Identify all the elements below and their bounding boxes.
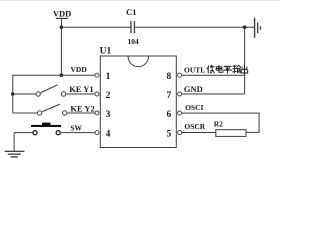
wire VDD vertical xyxy=(60,19,62,76)
switch KEY1 xyxy=(13,84,95,96)
svg-text:R2: R2 xyxy=(214,119,223,128)
resistor R2 xyxy=(214,119,246,136)
svg-text:VDD: VDD xyxy=(53,9,71,19)
svg-text:1: 1 xyxy=(106,72,111,82)
svg-text:SW: SW xyxy=(70,124,82,133)
ground (sideways, top right) xyxy=(254,18,261,38)
svg-text:OUTL: OUTL xyxy=(184,66,205,75)
top scan artifact line xyxy=(0,0,280,1)
svg-text:5: 5 xyxy=(167,129,172,139)
pin 1 xyxy=(95,72,111,82)
输 xyxy=(233,65,241,73)
wire pin7 GND xyxy=(181,93,244,95)
wire pin6 OSCI loop xyxy=(181,113,259,132)
node label chinese 低电平输出 xyxy=(207,65,248,73)
svg-text:OSCR: OSCR xyxy=(184,122,205,131)
wire top left of C1 xyxy=(61,26,130,28)
pin 5 xyxy=(167,129,182,139)
svg-text:4: 4 xyxy=(106,130,111,140)
pin 2 xyxy=(95,91,111,101)
wire left rail xyxy=(12,75,14,113)
VDD power symbol xyxy=(53,9,71,20)
svg-text:KE Y1: KE Y1 xyxy=(69,84,93,94)
op IC U1 box xyxy=(100,47,177,148)
svg-text:8: 8 xyxy=(167,72,172,82)
node junction pin1/VDD xyxy=(60,73,64,77)
wire top right of C1 xyxy=(135,26,254,28)
svg-text:KE Y2: KE Y2 xyxy=(70,104,94,114)
switch KEY2 xyxy=(13,104,95,116)
svg-text:2: 2 xyxy=(106,91,111,101)
出 xyxy=(241,65,248,73)
低 xyxy=(207,65,214,73)
svg-text:OSCI: OSCI xyxy=(185,103,203,112)
node junction top right xyxy=(243,25,247,29)
svg-text:GND: GND xyxy=(184,84,203,94)
node junction rail/KEY1 xyxy=(11,92,15,96)
电 xyxy=(216,65,223,72)
wire pin1 VDD row xyxy=(13,74,95,76)
svg-text:6: 6 xyxy=(167,110,172,120)
svg-text:C1: C1 xyxy=(126,7,136,17)
wire pin5 OSCR xyxy=(181,132,215,134)
pin 8 xyxy=(167,72,182,82)
switch SW pushbutton xyxy=(14,123,95,135)
svg-text:104: 104 xyxy=(127,37,139,46)
node junction at VDD/top wire xyxy=(60,25,64,29)
ground (bottom left) xyxy=(5,151,25,158)
svg-text:U1: U1 xyxy=(100,47,112,57)
wire SW to ground xyxy=(13,133,15,151)
svg-text:VDD: VDD xyxy=(71,65,88,74)
pin 3 xyxy=(95,110,111,120)
pin 7 xyxy=(167,91,182,101)
pin 4 xyxy=(95,130,111,140)
pin 6 xyxy=(167,110,182,120)
svg-text:7: 7 xyxy=(167,91,172,101)
平 xyxy=(224,66,232,73)
capacitor C1 xyxy=(126,7,139,46)
wire right net vertical xyxy=(244,27,246,94)
wire pin8 OUTL xyxy=(181,74,245,76)
svg-text:3: 3 xyxy=(106,110,111,120)
